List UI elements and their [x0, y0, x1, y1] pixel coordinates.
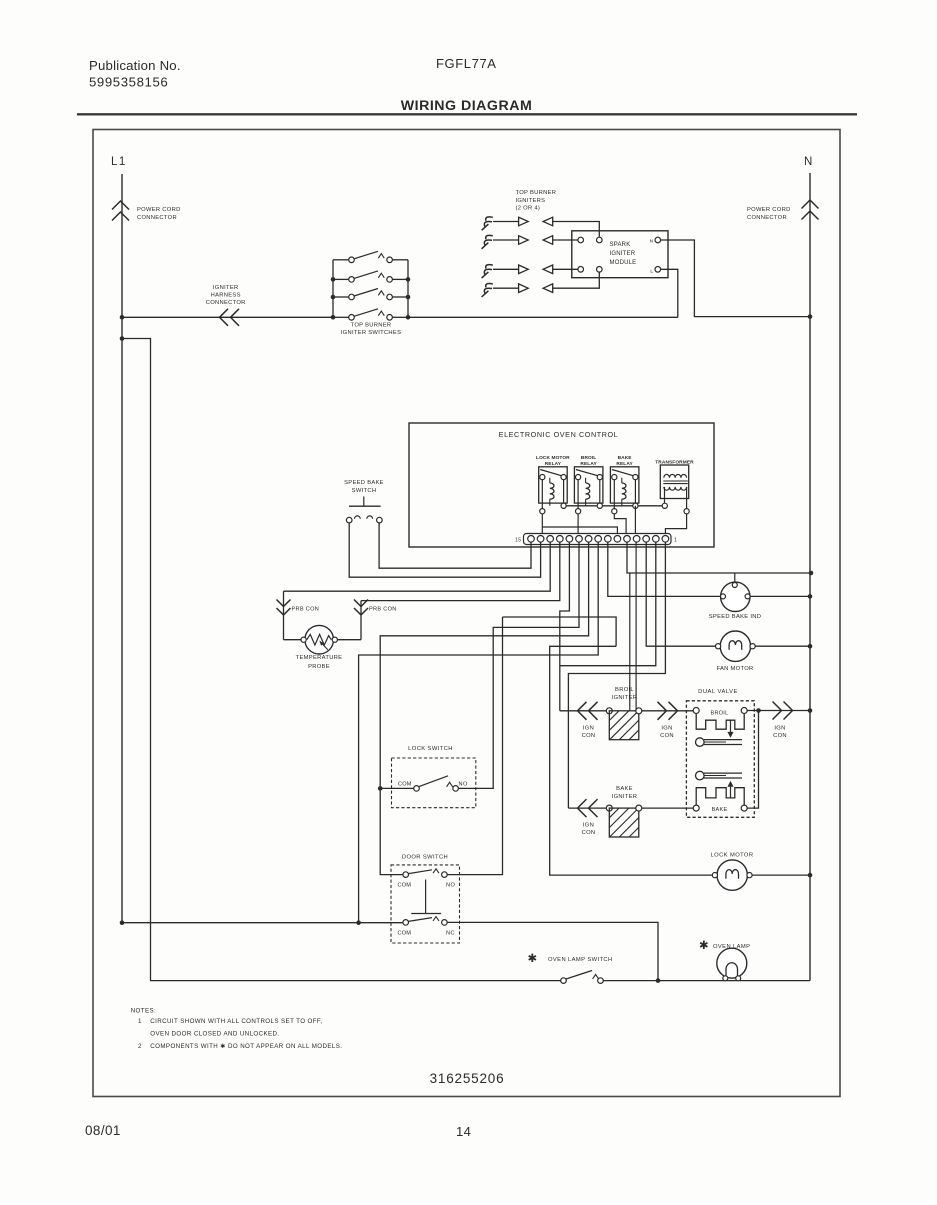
svg-text:BAKE: BAKE — [712, 807, 728, 813]
svg-text:IGNITER SWITCHES: IGNITER SWITCHES — [341, 330, 402, 336]
door switch — [391, 855, 460, 944]
svg-text:OVEN DOOR CLOSED AND UNLOCKED.: OVEN DOOR CLOSED AND UNLOCKED. — [150, 1030, 279, 1037]
svg-text:FAN MOTOR: FAN MOTOR — [716, 666, 753, 672]
wire terminal 13 to left probe connector — [284, 542, 551, 591]
terminal strip P1 — [515, 534, 677, 545]
svg-text:IGNITER: IGNITER — [612, 695, 638, 701]
wire left PRB to probe — [284, 639, 302, 641]
svg-text:SPARK: SPARK — [610, 242, 631, 248]
wire broil igniter to valve with IGN CON — [642, 710, 693, 712]
top burner igniter switches — [331, 251, 411, 336]
svg-text:14: 14 — [456, 1124, 471, 1139]
svg-text:COM: COM — [398, 782, 412, 788]
svg-text:BROIL: BROIL — [710, 711, 728, 717]
svg-text:15: 15 — [515, 538, 521, 544]
top burner igniter 3 — [482, 265, 553, 278]
svg-text:IGNITER: IGNITER — [610, 251, 636, 257]
wire valve broil side to N with IGN CON — [747, 710, 810, 712]
relay output bus — [564, 505, 665, 507]
wire terminal 9 to lock/door switch feed — [380, 542, 588, 875]
wire fan motor right to N — [753, 645, 810, 647]
wire lock motor to N — [752, 874, 810, 876]
svg-text:RELAY: RELAY — [580, 461, 597, 467]
wire door NO to lock motor chain — [503, 617, 617, 646]
svg-text:RELAY: RELAY — [545, 461, 562, 467]
wire igniter 4 to module — [553, 272, 600, 288]
wire door switch NC to lamp junction — [447, 922, 658, 980]
wire speed bake indicator right to N — [750, 595, 810, 597]
wire main bus switches to L terminal drop — [408, 316, 678, 318]
svg-text:IGN: IGN — [774, 726, 785, 732]
wire lock switch COM branch — [380, 787, 414, 789]
wire terminal 3 to fan motor — [646, 542, 717, 646]
wire terminal 11 to broil igniter feed — [560, 542, 570, 711]
top burner igniter 1 — [482, 217, 553, 230]
svg-text:✱: ✱ — [699, 940, 709, 952]
svg-text:BROIL: BROIL — [615, 687, 634, 693]
svg-text:NO: NO — [446, 883, 455, 889]
svg-text:SPEED BAKE: SPEED BAKE — [344, 480, 384, 486]
oven lamp — [699, 940, 750, 981]
wire terminal 12 to right probe connector — [361, 542, 560, 601]
junction lock switch COM feed — [378, 786, 383, 791]
wire relay2 coil to terminal 10 — [577, 514, 579, 534]
wire right PRB to probe — [337, 639, 361, 641]
svg-text:TOP BURNER: TOP BURNER — [516, 190, 557, 196]
wire igniter 3 to module — [553, 268, 578, 270]
wire module N terminal to N line — [661, 240, 810, 317]
svg-text:TEMPERATURE: TEMPERATURE — [296, 655, 343, 661]
wire lamp switch to junction — [603, 980, 658, 982]
svg-text:CON: CON — [582, 830, 596, 836]
svg-text:08/01: 08/01 — [85, 1123, 121, 1138]
svg-text:MODULE: MODULE — [610, 260, 637, 266]
wire relay3 coil to terminal 5 — [614, 514, 626, 534]
top burner igniter 4 — [482, 284, 553, 297]
wire relay1 coil to terminal 14 — [541, 514, 543, 534]
wire bus drop to terminal 4 — [634, 506, 636, 534]
svg-text:1: 1 — [138, 1018, 142, 1025]
svg-text:PRB CON: PRB CON — [292, 607, 320, 613]
svg-text:5995358156: 5995358156 — [89, 75, 168, 90]
lock motor — [711, 853, 754, 891]
svg-text:(2 OR 4): (2 OR 4) — [516, 206, 541, 212]
svg-text:COMPONENTS WITH ✱ DO NOT APP: COMPONENTS WITH ✱ DO NOT APPEAR ON ALL M… — [150, 1043, 342, 1050]
svg-text:L1: L1 — [111, 156, 127, 168]
svg-text:DUAL VALVE: DUAL VALVE — [698, 689, 738, 695]
fan motor — [716, 631, 756, 672]
power cord connector (N) — [802, 200, 819, 209]
junction L1 lamp branch — [120, 336, 125, 341]
svg-text:WIRING DIAGRAM: WIRING DIAGRAM — [401, 98, 533, 114]
svg-text:Publication No.: Publication No. — [89, 58, 181, 73]
svg-text:LOCK MOTOR: LOCK MOTOR — [711, 853, 754, 859]
svg-text:BROIL: BROIL — [581, 455, 596, 461]
lock switch — [392, 746, 476, 808]
svg-text:IGN: IGN — [583, 823, 594, 829]
wire junction to oven lamp and N — [658, 980, 810, 982]
svg-text:CON: CON — [773, 733, 787, 739]
svg-text:N: N — [804, 156, 813, 168]
wire terminal 7 to speed bake indicator — [608, 542, 721, 596]
svg-text:NO: NO — [459, 782, 468, 788]
svg-text:316255206: 316255206 — [430, 1071, 505, 1086]
broil igniter — [560, 687, 642, 740]
wire transformer to terminal 1 — [665, 514, 686, 534]
wire terminal 5 to speed bake indicator top / N — [627, 542, 811, 573]
svg-text:POWER CORD: POWER CORD — [137, 207, 181, 213]
svg-text:IGN: IGN — [583, 726, 594, 732]
svg-text:L: L — [650, 269, 653, 275]
left PRB CON connector — [283, 591, 285, 640]
wire terminal 1 to bake igniter feed — [568, 542, 665, 808]
svg-text:PROBE: PROBE — [308, 664, 330, 670]
svg-text:TOP BURNER: TOP BURNER — [351, 323, 392, 329]
svg-text:OVEN LAMP SWITCH: OVEN LAMP SWITCH — [548, 957, 613, 963]
wire L1 branch to oven lamp switch — [122, 339, 561, 981]
svg-text:ELECTRONIC OVEN CONTROL: ELECTRONIC OVEN CONTROL — [499, 430, 619, 439]
transformer T1 — [655, 460, 694, 514]
relay BROIL RELAY — [574, 455, 603, 514]
top burner igniter 2 — [482, 235, 553, 248]
bake igniter — [568, 786, 641, 837]
svg-text:N: N — [650, 239, 654, 245]
svg-text:HARNESS: HARNESS — [211, 293, 241, 299]
dual valve — [686, 689, 754, 817]
wire module L terminal to main bus — [661, 269, 678, 317]
svg-text:DOOR SWITCH: DOOR SWITCH — [402, 855, 448, 861]
relay BAKE RELAY — [610, 455, 639, 514]
svg-text:CONNECTOR: CONNECTOR — [137, 215, 177, 221]
svg-text:CONNECTOR: CONNECTOR — [747, 215, 787, 221]
wire lock motor feed — [550, 646, 715, 875]
junction L1/main bus — [120, 315, 125, 320]
svg-text:CON: CON — [582, 733, 596, 739]
wire main bus L1 to igniter switches — [122, 316, 333, 318]
wire L1 to door switch COM — [122, 922, 403, 924]
wire bake igniter to valve — [642, 807, 693, 809]
wire valve bake side riser — [747, 711, 758, 809]
power cord connector (L1) — [112, 201, 129, 210]
oven lamp switch — [527, 953, 612, 983]
svg-text:NC: NC — [446, 931, 455, 937]
wire N vertical — [809, 173, 811, 981]
speed bake indicator — [709, 573, 762, 620]
svg-text:CONNECTOR: CONNECTOR — [206, 300, 246, 306]
svg-text:POWER CORD: POWER CORD — [747, 207, 791, 213]
wire terminal 10 to lock switch NO — [458, 542, 579, 788]
svg-text:IGNITER: IGNITER — [213, 285, 239, 291]
wire terminal 14 to speed bake switch left pole — [349, 523, 540, 577]
svg-text:IGNITER: IGNITER — [612, 794, 638, 800]
svg-text:COM: COM — [398, 883, 412, 889]
spark igniter module — [572, 231, 668, 278]
svg-text:PRB CON: PRB CON — [369, 607, 397, 613]
speed bake switch — [344, 480, 384, 523]
svg-text:✱: ✱ — [527, 953, 537, 965]
svg-text:LOCK MOTOR: LOCK MOTOR — [536, 455, 570, 461]
wire igniter 1 to module — [553, 222, 600, 237]
wire terminal 2 to broil igniter feed — [560, 542, 656, 666]
svg-text:SWITCH: SWITCH — [352, 488, 377, 494]
temperature probe — [296, 625, 343, 670]
wire unnamed drop t5 branch to broil valve area — [629, 573, 631, 711]
svg-text:1: 1 — [674, 538, 677, 544]
svg-text:SPEED BAKE IND: SPEED BAKE IND — [709, 614, 762, 620]
header rule — [77, 113, 857, 115]
wire terminal 4 drop to broil igniter box — [635, 542, 637, 711]
igniter harness connector — [220, 309, 229, 326]
wire L1 vertical — [121, 174, 123, 923]
svg-text:LOCK SWITCH: LOCK SWITCH — [408, 746, 453, 752]
svg-text:BAKE: BAKE — [616, 786, 633, 792]
svg-text:COM: COM — [398, 931, 412, 937]
svg-text:CON: CON — [660, 733, 674, 739]
svg-text:NOTES:: NOTES: — [131, 1008, 156, 1015]
svg-text:RELAY: RELAY — [616, 461, 633, 467]
svg-text:FGFL77A: FGFL77A — [436, 56, 497, 71]
wire relay1 coil jog to terminal 6 — [542, 527, 617, 534]
right PRB CON connector — [360, 601, 362, 640]
diagram border frame — [93, 130, 840, 1097]
electronic oven control box — [409, 423, 714, 547]
svg-text:IGN: IGN — [661, 726, 672, 732]
wire door switch NO riser — [447, 617, 502, 875]
wire terminal 15 to speed bake switch right pole — [379, 523, 531, 568]
wire terminal 8 to door switch lower COM bus — [359, 542, 599, 923]
svg-text:IGNITERS: IGNITERS — [516, 198, 546, 204]
svg-text:2: 2 — [138, 1043, 142, 1050]
relay LOCK MOTOR RELAY — [536, 455, 570, 514]
svg-text:CIRCUIT SHOWN WITH ALL CONTROL: CIRCUIT SHOWN WITH ALL CONTROLS SET TO O… — [150, 1018, 322, 1025]
svg-text:BAKE: BAKE — [618, 455, 633, 461]
wire igniter 2 to module — [553, 239, 578, 241]
